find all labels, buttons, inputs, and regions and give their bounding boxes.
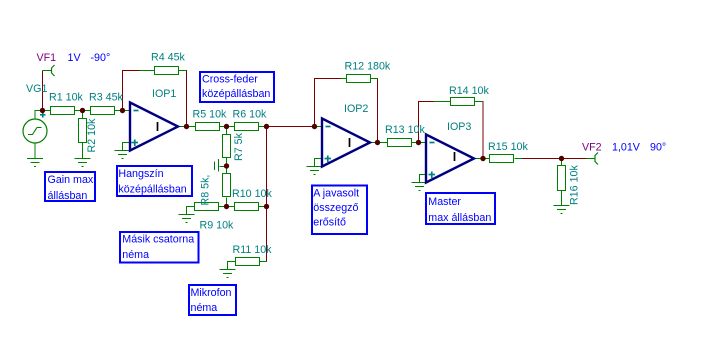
node R8/R9/R10 junction	[224, 204, 229, 209]
node R16 junction	[559, 156, 564, 161]
op-amp IOP1	[130, 103, 178, 151]
ground IOP1 plus	[115, 143, 131, 159]
svg-text:R4 45k: R4 45k	[151, 52, 186, 64]
svg-text:Hangszín: Hangszín	[118, 168, 163, 180]
node R7/R8 wiper junction	[224, 163, 229, 168]
svg-text:VF1: VF1	[37, 52, 57, 64]
svg-text:R12 180k: R12 180k	[345, 61, 391, 73]
source VG1	[23, 119, 47, 143]
resistor R13	[388, 139, 412, 147]
ground R2	[75, 159, 91, 167]
svg-text:R10 10k: R10 10k	[232, 188, 272, 200]
resistor R5	[196, 123, 220, 131]
svg-text:-90°: -90°	[91, 52, 111, 64]
node R10 rail junction	[264, 204, 269, 209]
resistor R14	[451, 98, 475, 106]
wire R7 stem top	[226, 127, 228, 135]
note box Master max allasban	[426, 193, 495, 224]
resistor R6	[235, 123, 259, 131]
resistor R10	[235, 203, 259, 211]
svg-text:1V: 1V	[68, 52, 82, 64]
probe VF1	[52, 65, 55, 76]
wire R12 right	[371, 78, 379, 80]
note box Hangszin kozepallasban	[117, 166, 192, 196]
wire R14 feedback left	[418, 102, 420, 143]
svg-text:IOP1: IOP1	[152, 88, 176, 100]
svg-text:erősítő: erősítő	[313, 217, 346, 229]
svg-text:max állásban: max állásban	[428, 212, 491, 224]
node IOP3 output	[480, 156, 485, 161]
svg-text:R13 10k: R13 10k	[385, 124, 425, 136]
probe VF2	[595, 153, 598, 165]
resistor R4	[155, 67, 179, 75]
ground IOP3 plus	[412, 175, 428, 191]
note box Gain max allasban	[45, 172, 95, 202]
svg-text:IOP3: IOP3	[447, 121, 471, 133]
ground VG1	[27, 159, 43, 167]
svg-text:R15 10k: R15 10k	[488, 141, 528, 153]
wire IOP3 out to R15	[474, 158, 489, 160]
svg-text:R9 10k: R9 10k	[200, 220, 235, 232]
ground R16	[554, 206, 570, 214]
wire R7 stem bottom	[226, 158, 228, 166]
node R13/R14/IOP3- junction	[416, 140, 421, 145]
svg-text:R1 10k: R1 10k	[49, 92, 84, 104]
wire R1-R3 row A	[75, 110, 90, 112]
svg-text:1,01V: 1,01V	[612, 142, 641, 154]
wire R11 left to ground	[228, 262, 236, 270]
wire VF1 probe vertical	[42, 71, 44, 111]
wire right vertical net	[266, 127, 268, 262]
wire R10 to vertical	[259, 206, 267, 208]
svg-text:állásban: állásban	[48, 190, 88, 202]
resistor R3	[91, 107, 115, 115]
wire R8 stem bottom	[226, 198, 228, 207]
wire R8 stem top	[226, 166, 228, 174]
node R3/R4/IOP1- junction	[120, 108, 125, 113]
wire R9 left to ground	[187, 207, 195, 215]
svg-text:VG1: VG1	[26, 83, 47, 95]
svg-text:R6 10k: R6 10k	[233, 109, 268, 121]
wire IOP2 out to R13	[370, 142, 387, 144]
node VG1/R1 junction	[40, 108, 45, 113]
ground wiper rotated left	[215, 159, 227, 172]
wire node to IOP3 minus	[419, 142, 427, 144]
node R1/R2/R3 junction	[80, 108, 85, 113]
wire IOP1 feedback top	[122, 70, 140, 72]
wire IOP1 out to R5	[178, 126, 195, 128]
node R6/IOP2 input rail top	[264, 124, 269, 129]
svg-text:IOP2: IOP2	[344, 103, 368, 115]
wire R14 right	[475, 101, 484, 103]
resistor R1	[51, 107, 75, 115]
wire R3 to IOP1 minus	[115, 110, 130, 112]
node R5/R6/R7 junction	[224, 124, 229, 129]
ground IOP2 plus	[307, 159, 323, 175]
svg-text:R14 10k: R14 10k	[449, 85, 489, 97]
wire R11 right	[260, 261, 268, 263]
wire IOP1 feedback left vertical	[122, 71, 124, 111]
svg-text:R2 10k: R2 10k	[86, 118, 98, 153]
svg-text:középállásban: középállásban	[202, 88, 270, 100]
svg-text:R5 10k: R5 10k	[193, 109, 228, 121]
resistor R2	[79, 119, 87, 143]
svg-text:90°: 90°	[650, 142, 666, 154]
wire R12 feedback left	[314, 79, 316, 127]
wire node to IOP2 input	[267, 126, 315, 128]
resistor R9	[195, 203, 219, 211]
svg-text:középállásban: középállásban	[118, 184, 186, 196]
ground R11	[220, 270, 236, 278]
svg-text:Cross-feder: Cross-feder	[202, 74, 258, 86]
wire R5-R6 row B	[220, 126, 235, 128]
ground R9	[179, 215, 195, 223]
svg-text:Master: Master	[428, 196, 461, 208]
wire R13 to node	[412, 142, 419, 144]
svg-text:R3 45k: R3 45k	[89, 92, 124, 104]
resistor R16	[558, 166, 566, 191]
note box A javasolt osszegzo erosito	[312, 186, 367, 235]
svg-text:R16 10k: R16 10k	[569, 165, 581, 205]
svg-text:Gain max: Gain max	[48, 174, 94, 186]
svg-text:néma: néma	[122, 249, 149, 261]
wire R16 stem top	[561, 159, 563, 166]
svg-text:Másik csatorna: Másik csatorna	[122, 234, 194, 246]
svg-text:néma: néma	[191, 302, 218, 314]
svg-text:R7 5k: R7 5k	[233, 132, 245, 161]
wire R15 to VF2	[515, 158, 523, 160]
note box Masik csatorna nema	[120, 232, 199, 263]
note box Mikrofon nema	[189, 285, 236, 315]
wire R2 stem top	[82, 111, 84, 119]
wire R6 to node	[259, 126, 267, 128]
svg-text:VF2: VF2	[582, 142, 602, 154]
svg-text:A javasolt: A javasolt	[313, 188, 359, 200]
wire input row A	[35, 111, 50, 120]
wire R16 stem bottom	[561, 191, 563, 206]
note box Cross-feder kozepallasban	[200, 72, 274, 102]
source VG1 plus terminal	[40, 112, 46, 118]
svg-text:Mikrofon: Mikrofon	[191, 287, 232, 299]
resistor R15	[490, 155, 514, 163]
op-amp IOP3	[426, 135, 474, 183]
wire R2 stem bottom	[82, 143, 84, 159]
node IOP2 output	[375, 140, 380, 145]
wire R9-R10 row C	[219, 206, 235, 208]
resistor R8	[223, 174, 231, 197]
resistor R11	[236, 258, 260, 266]
resistor R12	[347, 75, 371, 83]
node R12/IOP2- junction	[312, 124, 317, 129]
resistor R7	[223, 135, 231, 158]
node IOP1 output	[184, 124, 189, 129]
wire R4 right to output	[179, 70, 187, 72]
svg-text:R11 10k: R11 10k	[233, 244, 273, 256]
svg-text:R8 5k,: R8 5k,	[200, 175, 212, 206]
wire VF1 probe horizontal	[43, 70, 52, 72]
wire VG1 bottom stem	[34, 143, 36, 158]
svg-text:összegző: összegző	[313, 202, 358, 214]
op-amp IOP2	[322, 119, 370, 167]
